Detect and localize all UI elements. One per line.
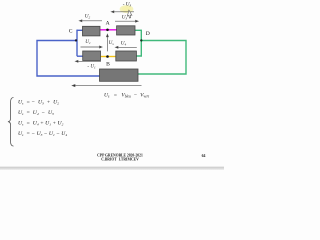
- arrow Us bottom (left pointing, under R5): [72, 85, 141, 87]
- wire green: D vertical: [136, 30, 141, 56]
- wire green: D top stub: [135, 29, 141, 31]
- svg-text:D: D: [146, 31, 150, 37]
- arrow Us vertical (pointing up to A): [106, 34, 108, 51]
- circuit schematic: Wheatstone bridge lecture slide: [0, 0, 224, 170]
- wire blue: C vertical: [76, 30, 78, 57]
- wire blue: C bottom stub: [77, 55, 83, 57]
- arrow U3 (right pointing): [115, 20, 138, 22]
- arrow -U3 (left pointing): [111, 11, 134, 13]
- svg-text:Us = U4 − U3: Us = U4 − U3: [18, 110, 54, 116]
- arrow -U1 (left pointing, under R1): [75, 60, 101, 62]
- resistor R3 (top-right): [117, 26, 135, 35]
- svg-text:Us = − U3 − U1 − U4: Us = − U3 − U1 − U4: [18, 131, 67, 137]
- node C junction dot: [75, 39, 77, 41]
- mouse cursor: [127, 10, 133, 18]
- wire yellow B: [101, 56, 116, 58]
- svg-text:64: 64: [202, 154, 206, 158]
- equations brace: [8, 98, 14, 147]
- arrow U2 (left pointing): [79, 20, 102, 22]
- resistor R5 (bottom measurement): [100, 69, 139, 81]
- svg-text:A: A: [106, 21, 110, 27]
- resistor R4 (bottom-right): [116, 51, 137, 61]
- node B junction dot: [106, 55, 109, 58]
- arrow U1 (right pointing): [81, 46, 103, 48]
- wire blue: outer loop to bottom resistor: [37, 41, 100, 77]
- svg-text:- U1: - U1: [87, 64, 96, 69]
- resistor R2 (top-left): [83, 26, 101, 36]
- svg-text:Us = − U3 + U2: Us = − U3 + U2: [18, 100, 59, 106]
- svg-text:C: C: [69, 28, 73, 34]
- wire magenta A: [100, 29, 117, 31]
- svg-text:B: B: [106, 61, 110, 67]
- svg-text:C.BRIOT I.TRIMCEV: C.BRIOT I.TRIMCEV: [101, 157, 139, 161]
- highlight (yellow marker blob over -U3): [120, 5, 134, 13]
- resistor R1 (bottom-left): [83, 51, 101, 61]
- arrow U4 (left pointing): [115, 46, 136, 48]
- svg-text:Us = U4 + U1 + U2: Us = U4 + U1 + U2: [18, 121, 64, 127]
- wire green: outer loop to bottom resistor: [138, 41, 186, 75]
- wire blue: C top stub: [77, 29, 83, 31]
- node D junction dot: [140, 39, 142, 41]
- node A junction dot: [106, 29, 109, 32]
